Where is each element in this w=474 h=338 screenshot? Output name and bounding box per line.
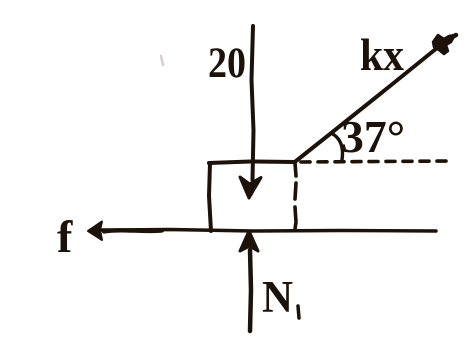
friction line overdrawn segment xyxy=(104,230,162,231)
normal arrow N1: head xyxy=(240,231,258,251)
block (box) left edge xyxy=(209,163,211,231)
weight arrow 20: shaft xyxy=(252,26,254,180)
block top edge xyxy=(209,162,295,164)
angle arc 37 xyxy=(331,133,343,160)
svg-text:f: f xyxy=(57,211,73,262)
svg-text:37°: 37° xyxy=(341,112,405,162)
block right edge (broken/dashed) xyxy=(295,163,296,176)
svg-text:kx: kx xyxy=(360,30,404,80)
svg-text:N: N xyxy=(262,272,293,322)
surface line with friction f (horizontal line through box bottom) xyxy=(99,230,436,232)
spring force arrow kx: scribbled head xyxy=(433,35,455,54)
spring force arrow kx: shaft xyxy=(296,48,437,161)
faint smudge mark xyxy=(161,56,163,65)
friction arrowhead f xyxy=(88,222,102,241)
subscript 1 of N1 xyxy=(298,306,299,318)
normal arrow N1: shaft xyxy=(250,250,251,331)
dashed horizontal reference line xyxy=(301,161,452,162)
weight arrow 20: head xyxy=(240,177,261,198)
svg-text:20: 20 xyxy=(208,40,246,87)
